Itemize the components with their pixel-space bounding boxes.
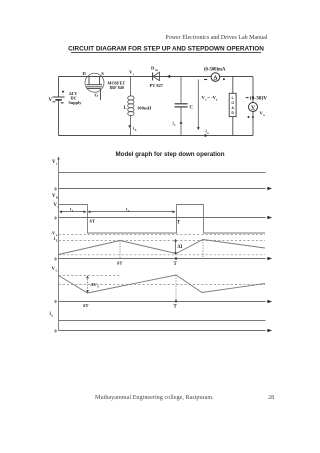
axis row 4 xyxy=(59,301,266,303)
current io arrow on bottom rail xyxy=(205,134,208,137)
inductor L 100mH xyxy=(128,77,134,136)
svg-text:0: 0 xyxy=(55,257,57,262)
svg-text:O: O xyxy=(231,101,234,105)
voltmeter V (0-30)V xyxy=(252,77,254,103)
transistor Q1 MOSFET IRF 840 xyxy=(85,73,104,92)
svg-text:PV 827: PV 827 xyxy=(150,83,164,88)
deltaVc annotation xyxy=(87,277,89,293)
-Vo dashed level xyxy=(59,234,266,236)
svg-text:Supply: Supply xyxy=(69,100,83,105)
dashed verticals row 3 xyxy=(119,241,121,259)
svg-text:L: L xyxy=(135,128,137,132)
svg-text:L: L xyxy=(124,106,127,111)
wire top rail xyxy=(59,76,254,78)
svg-text:δT: δT xyxy=(90,218,95,223)
svg-text:in: in xyxy=(53,100,56,104)
svg-text:(0-500)mA: (0-500)mA xyxy=(204,67,226,72)
current ic arrow (up) xyxy=(180,121,183,124)
capacitor C xyxy=(175,77,188,136)
node Vc annotation arrow xyxy=(197,80,199,129)
axis row 3 xyxy=(59,258,266,260)
svg-text:CIRCUIT DIAGRAM FOR STEP UP AN: CIRCUIT DIAGRAM FOR STEP UP AND STEPDOWN… xyxy=(68,46,264,53)
svg-text:ΔI: ΔI xyxy=(178,245,183,250)
svg-text:G: G xyxy=(95,93,99,98)
axis row 1 xyxy=(59,188,266,190)
load box xyxy=(232,77,234,94)
svg-text:IRF 840: IRF 840 xyxy=(110,85,124,90)
svg-text:C: C xyxy=(190,105,194,110)
svg-text:0: 0 xyxy=(55,187,57,192)
svg-text:Power Electronics and Drives L: Power Electronics and Drives Lab Manual xyxy=(165,35,267,41)
svg-text:0: 0 xyxy=(55,299,57,304)
svg-text:L: L xyxy=(232,96,234,100)
dashed vertical at T row 4 xyxy=(175,275,177,302)
svg-text:(0-30)V: (0-30)V xyxy=(250,94,267,101)
deltaI annotation xyxy=(175,240,177,255)
t2 annotation xyxy=(89,211,175,213)
svg-text:S: S xyxy=(101,71,104,76)
svg-text:δT: δT xyxy=(83,303,88,308)
svg-text:δT: δT xyxy=(117,261,122,266)
axis row 2 xyxy=(59,217,266,219)
diode Dm PV 827 xyxy=(153,72,160,80)
svg-text:V: V xyxy=(251,105,255,111)
svg-text:100mH: 100mH xyxy=(137,106,152,111)
wire left rail lower xyxy=(58,100,60,136)
wire left rail upper xyxy=(58,77,60,97)
svg-text:0: 0 xyxy=(55,329,57,334)
battery Vin 24V DC supply xyxy=(53,97,65,100)
current iL arrow xyxy=(128,125,131,128)
t1 annotation xyxy=(60,211,86,213)
ammeter A (0-500)mA xyxy=(211,73,220,82)
svg-text:m: m xyxy=(155,68,158,72)
svg-text:Model graph for step down oper: Model graph for step down operation xyxy=(116,151,225,158)
svg-text:L: L xyxy=(56,238,58,242)
svg-text:Muthayammal Engineering colleg: Muthayammal Engineering college, Rasipur… xyxy=(95,394,214,401)
svg-text:28: 28 xyxy=(268,394,274,401)
graph vertical axis xyxy=(58,158,60,331)
svg-text:0: 0 xyxy=(55,216,57,221)
axis row 5 xyxy=(59,330,266,332)
wire bottom rail xyxy=(59,135,254,137)
svg-text:A: A xyxy=(213,75,217,81)
wire arrow (current toward diode) xyxy=(167,75,170,79)
